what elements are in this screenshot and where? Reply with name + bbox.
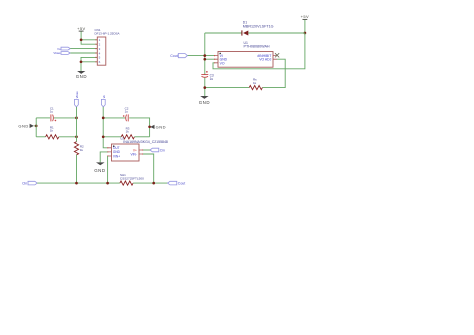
junction (C1 / Vbias node)	[75, 117, 78, 120]
wire VO to +5V rail (under box)	[213, 33, 305, 69]
wire VI	[187, 55, 214, 57]
wire pin5	[81, 57, 97, 71]
wire R3 right lead	[134, 136, 149, 138]
svg-text:VIN-: VIN-	[131, 152, 137, 156]
svg-text:Cin: Cin	[160, 149, 165, 153]
wire R1 right lead	[59, 136, 77, 138]
net port Vbias (to pin4)	[53, 51, 70, 55]
wire pin1	[81, 39, 97, 41]
junction (node / VI)	[203, 54, 206, 57]
ground (U2)	[94, 162, 105, 172]
wire pin2 stub	[95, 43, 97, 45]
wire pin4	[70, 52, 97, 54]
ground flag (C2/R3 right)	[150, 124, 166, 129]
svg-text:INA169NA/3KG4_C2155848: INA169NA/3KG4_C2155848	[123, 140, 168, 144]
svg-text:VIN+: VIN+	[113, 154, 120, 158]
wire R3 left lead	[103, 136, 121, 138]
wire node to diode cathode	[205, 32, 242, 34]
junction (pin6 / gnd line)	[80, 60, 83, 63]
junction (right vertical / gnd)	[148, 125, 151, 128]
svg-text:1k: 1k	[80, 148, 84, 152]
wire pin6	[81, 61, 97, 63]
net port Vbias (vertical)	[75, 91, 80, 107]
junction (node / U1 gnd)	[203, 58, 206, 61]
net port Cin (bottom left)	[22, 181, 37, 185]
ground flag (C1/R1 left)	[18, 123, 33, 128]
junction (C3 / Rs / gnd)	[203, 86, 206, 89]
junction (R1 / Vbias node)	[75, 135, 78, 138]
wire rail left	[37, 182, 120, 184]
svg-text:GND: GND	[199, 100, 210, 105]
shunt SH1 CSS2725FTL500	[120, 173, 144, 185]
svg-text:Cout: Cout	[178, 182, 185, 186]
svg-text:MBR120VLSFT1G: MBR120VLSFT1G	[243, 24, 274, 28]
svg-text:Cout: Cout	[170, 54, 177, 58]
svg-text:1k: 1k	[126, 130, 130, 134]
ground (connector)	[76, 71, 87, 79]
wire diode anode to +5V	[248, 32, 305, 34]
junction (C2 / Vo node)	[102, 117, 105, 120]
wire node vertical (VI rail)	[204, 33, 206, 74]
junction (gnd / left vertical)	[35, 125, 38, 128]
junction (VIN+ / rail)	[106, 182, 109, 185]
svg-text:VO ADJ: VO ADJ	[259, 58, 271, 62]
svg-text:PTH08080WAH: PTH08080WAH	[244, 45, 270, 49]
resistor Rs 1k	[249, 78, 262, 90]
connector CN1 DF13-6P-1.25DSA	[95, 28, 120, 65]
net port Vo (vertical)	[101, 95, 106, 107]
svg-text:GND: GND	[18, 123, 28, 128]
wire +5V vertical to pin2 corner	[81, 32, 95, 45]
wire VO ADJ to Rs	[262, 59, 285, 87]
capacitor C3 1u	[201, 71, 214, 81]
wire gnd to node	[34, 125, 36, 127]
svg-text:GND: GND	[94, 168, 105, 173]
power flag +5V (connector section)	[77, 26, 86, 31]
svg-text:1u: 1u	[125, 110, 129, 114]
no-connect cross (#INHIBIT)	[275, 53, 279, 57]
wire pin3	[70, 48, 97, 50]
junction (+5V / diode wire)	[304, 32, 307, 35]
svg-text:+5V: +5V	[77, 26, 86, 31]
junction (+5V / pin1)	[80, 38, 83, 41]
power flag +5V (regulator section)	[301, 14, 310, 19]
wire gnd node to Rs	[205, 87, 249, 89]
net port Cout (bottom right)	[168, 181, 186, 185]
wire VIN- down to rail	[143, 154, 154, 183]
wire left vertical (C1-R1)	[35, 118, 37, 137]
svg-text:Vo: Vo	[102, 95, 106, 99]
wire V+ to Cin port	[143, 149, 150, 151]
capacitor C1 1u	[50, 106, 56, 121]
svg-text:Vo: Vo	[57, 47, 61, 51]
wire C1 left lead	[36, 117, 50, 119]
svg-text:CSS2725FTL500: CSS2725FTL500	[120, 177, 144, 181]
resistor R3 1k	[121, 126, 134, 139]
junction (VIN- / rail)	[152, 182, 155, 185]
net port Vo (to pin3)	[57, 47, 70, 51]
wire GND pin U1	[205, 58, 215, 60]
wire C3 to gnd node	[204, 78, 206, 96]
svg-text:GND: GND	[156, 124, 166, 129]
svg-text:1u: 1u	[210, 77, 214, 81]
svg-text:DF13-6P-1.25DSA: DF13-6P-1.25DSA	[95, 32, 120, 36]
regulator U1 PTH08080WAH	[214, 41, 277, 67]
wire C2 right lead	[129, 118, 149, 137]
wire C2 left lead	[103, 117, 125, 119]
svg-text:+5V: +5V	[301, 14, 310, 19]
wire C1 right lead	[54, 117, 77, 119]
net port Cin (V+ of U2)	[150, 148, 165, 152]
svg-text:1k: 1k	[253, 81, 257, 85]
svg-text:Cin: Cin	[22, 181, 27, 185]
resistor R2 1k	[74, 142, 84, 155]
junction (R3 / Vo node)	[102, 135, 105, 138]
svg-text:1u: 1u	[50, 110, 54, 114]
capacitor C2 1u	[123, 106, 129, 121]
wire U2 gnd	[100, 152, 107, 163]
wire +5V down to rail	[304, 20, 306, 33]
resistor R1 1k	[46, 125, 59, 139]
wire R2 to rail	[76, 155, 78, 183]
wire R1 left lead	[36, 136, 45, 138]
diode D1 MBR120VLSFT1G	[242, 20, 274, 35]
svg-text:Vbias: Vbias	[53, 51, 61, 55]
wire Vo node vertical to OUT	[103, 107, 107, 148]
svg-text:VO: VO	[220, 61, 225, 65]
ground (C3)	[199, 96, 210, 105]
amplifier U2 INA169NA/3KG4	[107, 137, 168, 161]
wire VIN+ down to rail	[107, 156, 109, 183]
svg-text:GND: GND	[76, 74, 87, 79]
net port Cout (regulator input)	[170, 54, 187, 58]
wire Vbias node vertical	[76, 107, 78, 142]
svg-text:Vbias: Vbias	[75, 91, 79, 99]
svg-text:1k: 1k	[50, 129, 54, 133]
wire rail right	[133, 182, 168, 184]
junction (R2 / rail)	[75, 182, 78, 185]
